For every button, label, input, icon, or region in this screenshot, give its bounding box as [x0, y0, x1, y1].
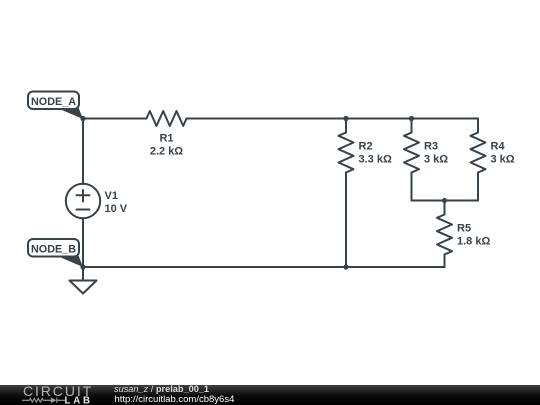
svg-text:R2: R2 — [359, 141, 373, 153]
node NODE_B flag — [28, 239, 83, 267]
wire top rail — [83, 118, 147, 120]
wire inner rail R3-R4 bottoms — [412, 200, 479, 202]
svg-text:3 kΩ: 3 kΩ — [491, 154, 515, 166]
svg-text:10 V: 10 V — [105, 203, 128, 215]
svg-text:3.3 kΩ: 3.3 kΩ — [359, 154, 392, 166]
node junction R2 top — [343, 116, 348, 121]
svg-text:susan_z / prelab_00_1: susan_z / prelab_00_1 — [114, 384, 209, 394]
logo diode — [51, 398, 57, 404]
svg-text:R3: R3 — [424, 141, 438, 153]
logo doodle wire — [22, 398, 65, 403]
svg-text:R1: R1 — [159, 133, 173, 145]
wire left rail upper — [82, 119, 84, 185]
resistor R4 — [471, 119, 486, 201]
node junction R2 bottom — [343, 264, 348, 269]
svg-text:NODE_A: NODE_A — [31, 96, 76, 108]
wire bottom rail — [83, 266, 445, 268]
wire left rail lower — [82, 218, 84, 267]
wire top rail right — [187, 118, 479, 120]
resistor R3 — [404, 119, 419, 201]
node NODE_A flag — [28, 92, 83, 120]
ground — [70, 267, 97, 294]
svg-text:NODE_B: NODE_B — [31, 244, 76, 256]
node junction R5 top — [442, 198, 447, 203]
resistor R5 — [437, 201, 452, 268]
svg-text:LAB: LAB — [65, 395, 93, 405]
svg-text:http://circuitlab.com/cb8y6s4: http://circuitlab.com/cb8y6s4 — [115, 394, 235, 405]
junction node dots — [80, 116, 447, 270]
svg-text:V1: V1 — [105, 190, 118, 202]
resistor R2 — [339, 119, 354, 268]
svg-text:R5: R5 — [457, 223, 471, 235]
svg-text:2.2 kΩ: 2.2 kΩ — [150, 146, 183, 158]
node junction R3 top — [409, 116, 414, 121]
svg-text:1.8 kΩ: 1.8 kΩ — [457, 236, 490, 248]
svg-text:3 kΩ: 3 kΩ — [424, 154, 448, 166]
svg-text:R4: R4 — [491, 141, 506, 153]
labels — [105, 133, 515, 248]
resistor R1 — [147, 111, 187, 126]
voltage source V1 — [66, 184, 100, 218]
node B junction — [80, 264, 85, 269]
node A junction — [80, 116, 85, 121]
footer bar — [0, 385, 540, 405]
